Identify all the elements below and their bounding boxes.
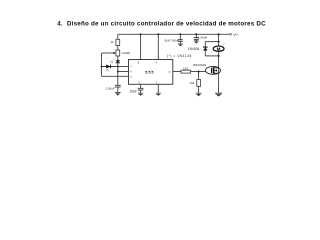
svg-text:1k: 1k (110, 40, 114, 44)
ground (R4) (196, 93, 202, 96)
wire flyback vertical (204, 42, 206, 56)
node rail pin4 (157, 33, 159, 35)
wire pot bottom to D2 (117, 56, 119, 60)
ground (timing cap) (115, 93, 121, 96)
Q1 arrow (214, 69, 217, 71)
motor M1 (213, 46, 224, 51)
wire 555 pin 4 to rail (157, 34, 159, 59)
wire gate resistor to mosfet gate (191, 71, 206, 73)
wire motor bottom to ground (218, 51, 220, 93)
wire R1 top lead (117, 34, 119, 39)
node flyback top (218, 41, 220, 43)
svg-text:555: 555 (145, 69, 154, 74)
node rail C3 (179, 33, 181, 35)
wire R1 to pot (117, 46, 119, 51)
capacitor C4 electrolytic (194, 38, 199, 40)
wire cap C4 to ground (195, 39, 197, 41)
wire D1 horizontal (102, 66, 118, 68)
svg-text:(*) = 1N4148: (*) = 1N4148 (167, 54, 192, 58)
Q1 gate bar (211, 68, 213, 73)
node timing B (117, 71, 119, 73)
svg-text:4. Diseño de un circuito cont: 4. Diseño de un circuito controlador de … (57, 21, 266, 28)
node rail motor (218, 33, 220, 35)
svg-text:1.00uF: 1.00uF (198, 35, 208, 39)
wire timing node vertical (117, 63, 119, 85)
wire 555 pin 1 to ground (157, 84, 159, 93)
wire node to pin 7 (118, 66, 129, 68)
Q1 drain lead (213, 67, 218, 69)
timing capacitor C1 (115, 85, 121, 87)
wire 555 pin 5 down (140, 84, 142, 88)
ground (C4) (194, 41, 199, 44)
svg-text:1.00uF: 1.00uF (106, 86, 115, 90)
wire top V+ rail (118, 33, 230, 35)
wire flyback top (205, 41, 218, 43)
capacitor C3 (178, 40, 183, 42)
wire wiper horizontal (102, 52, 115, 54)
Q1 channel bar (213, 67, 215, 73)
motor tick (223, 43, 225, 45)
wire left vertical (101, 53, 103, 76)
Q1 source lead (213, 72, 218, 74)
wire 555 output pin 3 (173, 71, 181, 73)
wire flyback bottom (205, 55, 218, 57)
wire timing cap to ground (117, 87, 119, 93)
svg-text:M: M (217, 46, 221, 51)
svg-text:V+: V+ (233, 32, 239, 37)
svg-text:1.00kΩ: 1.00kΩ (121, 51, 130, 55)
wire node to pin 6 (118, 71, 129, 73)
ground (control cap) (138, 93, 143, 96)
svg-text:10k: 10k (190, 81, 195, 85)
svg-text:100nF: 100nF (171, 38, 179, 42)
ground (555 pin 1) (156, 93, 161, 96)
node flyback bottom (218, 55, 220, 57)
junction dots (101, 33, 220, 72)
wire pulldown resistor to ground (198, 86, 200, 93)
node gate (198, 71, 200, 73)
wire gate node down (198, 72, 200, 80)
wire cap C3 to ground (179, 41, 181, 44)
ground (C3) (178, 44, 183, 46)
svg-text:10uF: 10uF (164, 38, 170, 42)
diode D2 (vertical) (115, 60, 120, 63)
wire motor branch from rail (218, 34, 220, 46)
svg-text:10nF: 10nF (130, 89, 137, 93)
svg-text:IRF1010N: IRF1010N (193, 63, 206, 67)
potentiometer P1 (116, 50, 120, 56)
wire cap C3 from rail (179, 34, 181, 39)
wire 555 pin 8 to rail (140, 34, 142, 59)
transistor Q1 MOSFET circle (206, 66, 221, 74)
resistor R1 (116, 39, 120, 45)
wire control cap to ground (140, 90, 142, 93)
wire cap C4 from rail (195, 34, 197, 37)
control capacitor C2 (138, 88, 144, 90)
diode D1 (horizontal) (106, 65, 110, 69)
svg-text:(*): (*) (110, 60, 113, 64)
node rail pin8 (140, 33, 142, 35)
node wiper-D1 (101, 66, 103, 68)
resistor R4 pulldown (197, 80, 201, 87)
op-amp U1 555 timer box (129, 60, 173, 85)
node timing A (117, 66, 119, 68)
wire wiper to pin 2 (102, 75, 129, 77)
ground (Q1 source) (215, 93, 222, 96)
potentiometer wiper arrow (113, 52, 116, 54)
svg-text:(*): (*) (106, 68, 109, 72)
diode D3 flyback 1N4004 (203, 47, 208, 50)
resistor R3 gate (181, 70, 191, 73)
svg-text:10Ω: 10Ω (183, 67, 188, 71)
svg-text:1N4004: 1N4004 (188, 47, 200, 51)
node V+ terminal (230, 33, 232, 35)
node rail C4 (195, 33, 197, 35)
